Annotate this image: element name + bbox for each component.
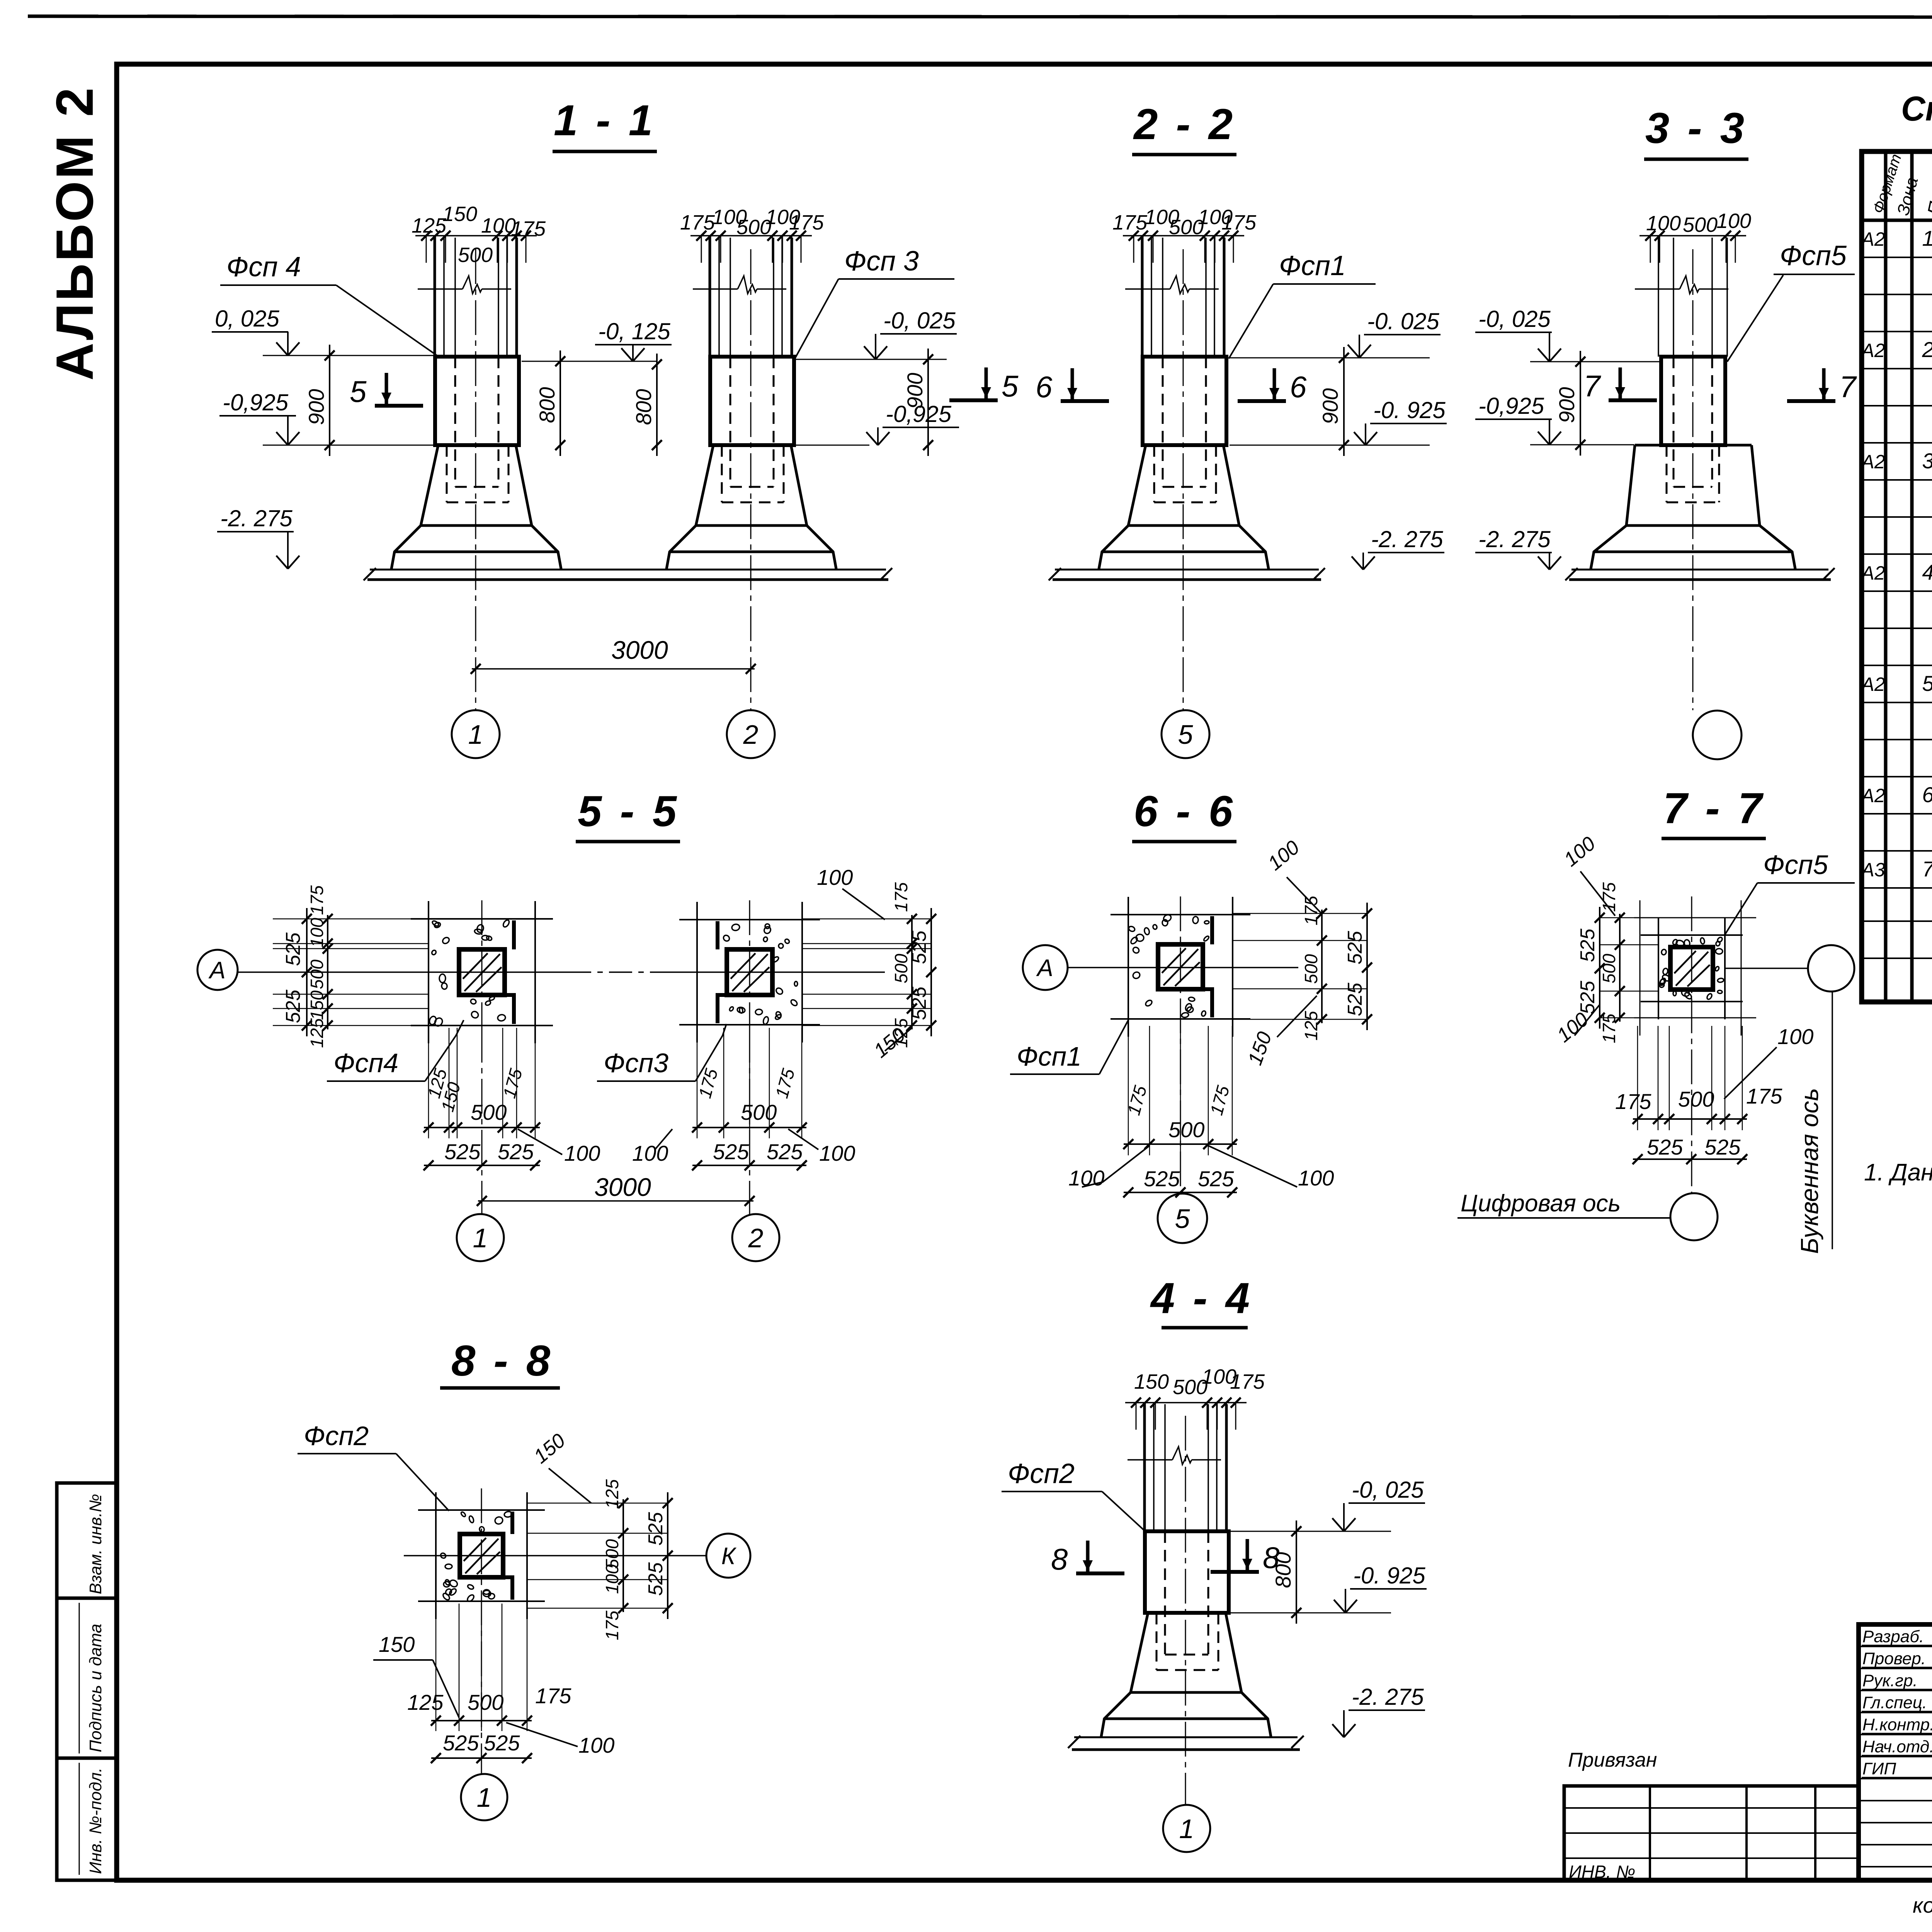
svg-text:150: 150 — [1134, 1370, 1169, 1393]
tapered pier — [435, 444, 519, 447]
svg-text:А2: А2 — [1860, 785, 1885, 806]
pedestal axis line — [750, 249, 752, 710]
column break mark — [418, 288, 463, 290]
letter axis circle К (8-8) — [706, 1534, 750, 1578]
extension square (7-7) — [1634, 917, 1756, 918]
svg-text:-2. 275: -2. 275 — [1352, 1684, 1424, 1710]
svg-text:5: 5 — [1175, 1204, 1190, 1234]
svg-text:500: 500 — [1599, 954, 1619, 983]
svg-text:525: 525 — [1577, 928, 1599, 962]
svg-text:4: 4 — [1922, 560, 1932, 584]
column shaft lines — [1143, 1404, 1146, 1531]
plan outer square — [1111, 914, 1250, 915]
column shaft lines — [1658, 238, 1659, 357]
svg-text:АЛЬБОМ 2: АЛЬБОМ 2 — [45, 86, 104, 381]
svg-text:900: 900 — [304, 389, 328, 425]
svg-text:Инв. №-подл.: Инв. №-подл. — [86, 1768, 105, 1874]
svg-text:1: 1 — [473, 1223, 488, 1253]
svg-text:525: 525 — [645, 1512, 667, 1546]
svg-text:125: 125 — [1301, 1011, 1321, 1041]
column break mark — [1125, 288, 1170, 290]
svg-text:100: 100 — [1298, 1166, 1334, 1190]
spec table frame — [1862, 151, 1932, 1002]
svg-text:ГИП: ГИП — [1862, 1759, 1896, 1778]
vertical dim 900 (3-3) — [1580, 351, 1581, 456]
svg-text:Фсп2: Фсп2 — [304, 1421, 369, 1451]
svg-text:-2. 275: -2. 275 — [1371, 526, 1443, 552]
pedestal axis line — [1183, 249, 1184, 710]
svg-text:Подпись и дата: Подпись и дата — [86, 1624, 105, 1752]
svg-text:2: 2 — [748, 1223, 764, 1253]
svg-text:7: 7 — [1839, 370, 1857, 404]
plan column with hatch — [1158, 944, 1203, 989]
ground line — [1055, 569, 1319, 571]
svg-text:0, 025: 0, 025 — [215, 306, 279, 332]
svg-text:500: 500 — [307, 959, 327, 989]
svg-text:А2: А2 — [1860, 340, 1885, 361]
axis circle 1 (8-8) — [461, 1774, 507, 1820]
svg-text:-0,925: -0,925 — [886, 401, 952, 427]
svg-text:800: 800 — [631, 389, 656, 425]
left dim chains (7-7) — [1599, 907, 1600, 1029]
left dim chains (5-5 square 1) — [306, 908, 308, 1036]
right dim chains (8-8) — [622, 1499, 624, 1612]
axis line to letter circle К (8-8) — [404, 1555, 706, 1556]
column shaft lines — [1141, 238, 1144, 357]
base slab — [421, 524, 532, 527]
vertical axis line (8-8) — [481, 1488, 482, 1774]
svg-text:100: 100 — [307, 918, 327, 947]
svg-text:175: 175 — [1746, 1084, 1782, 1108]
svg-text:5: 5 — [1922, 671, 1932, 696]
svg-text:Цифровая ось: Цифровая ось — [1461, 1190, 1621, 1217]
svg-text:175: 175 — [891, 882, 911, 912]
top dimension string — [415, 235, 537, 236]
svg-text:900: 900 — [1318, 388, 1342, 424]
svg-text:3000: 3000 — [594, 1173, 651, 1201]
svg-text:1: 1 — [1179, 1814, 1194, 1844]
axis circle (section 3-3) — [1693, 711, 1742, 759]
svg-text:500: 500 — [1678, 1087, 1714, 1111]
svg-text:Фсп1: Фсп1 — [1017, 1041, 1082, 1071]
pedestal axis line — [1185, 1416, 1186, 1805]
plan column with hatch — [1670, 947, 1713, 990]
svg-text:Фсп 3: Фсп 3 — [844, 246, 919, 277]
left margin box Подпись и дата — [57, 1598, 116, 1758]
column break mark — [1128, 1459, 1172, 1461]
collar inner dashed column — [454, 357, 456, 487]
svg-text:175: 175 — [307, 885, 327, 915]
svg-text:525: 525 — [484, 1731, 520, 1755]
svg-text:А2: А2 — [1860, 228, 1885, 250]
top dimension string — [1123, 235, 1244, 236]
plan column with hatch — [460, 1534, 503, 1577]
number axis circle (7-7) — [1670, 1193, 1718, 1240]
svg-text:175: 175 — [1615, 1089, 1651, 1114]
collar inner dashed column — [730, 357, 731, 487]
svg-text:6: 6 — [1290, 370, 1307, 404]
svg-text:1. Данный чертеж читать совме: 1. Данный чертеж читать совместно с лист… — [1864, 1159, 1932, 1186]
plan collar band with dots — [716, 921, 719, 949]
svg-text:Фсп5: Фсп5 — [1780, 240, 1847, 271]
axis line to letter circle (7-7) — [1725, 968, 1808, 969]
svg-text:-2. 275: -2. 275 — [1478, 526, 1551, 552]
axis circle 1 (section 1-1) — [452, 710, 500, 758]
svg-text:525: 525 — [443, 1731, 479, 1755]
column break mark — [693, 288, 738, 290]
axis circle 1 (5-5) — [457, 1214, 504, 1261]
plan collar band with dots — [1661, 949, 1667, 955]
svg-text:7 - 7: 7 - 7 — [1663, 784, 1765, 832]
svg-text:525: 525 — [1647, 1135, 1683, 1159]
svg-text:А3: А3 — [1860, 859, 1885, 881]
title block signature rows — [1859, 1646, 1932, 1647]
axis circle 5 (6-6) — [1158, 1194, 1207, 1243]
svg-text:525: 525 — [444, 1139, 481, 1164]
svg-text:500: 500 — [1683, 213, 1718, 236]
base slab — [1128, 524, 1239, 527]
plan outer square — [411, 918, 553, 920]
svg-text:Рук.гр.: Рук.гр. — [1862, 1671, 1918, 1690]
svg-text:500: 500 — [741, 1100, 777, 1124]
tapered pier — [710, 444, 794, 447]
svg-text:7: 7 — [1922, 857, 1932, 881]
bottom dim chains (7-7) — [1637, 1026, 1638, 1130]
vertical dim 900 right of axis2 — [927, 349, 929, 456]
pedestal axis line — [475, 249, 476, 710]
svg-text:125: 125 — [602, 1479, 622, 1509]
svg-text:525: 525 — [908, 986, 930, 1020]
svg-text:Разраб.: Разраб. — [1862, 1627, 1924, 1646]
svg-text:150: 150 — [442, 202, 477, 226]
svg-text:Нач.отд.: Нач.отд. — [1862, 1737, 1932, 1756]
vertical dim 900 (2-2) — [1343, 347, 1345, 456]
vertical axis line (6-6) — [1180, 896, 1181, 1194]
svg-text:175: 175 — [1112, 211, 1148, 234]
vertical axis lines (5-5) — [481, 900, 483, 1028]
axis circle 2 (5-5) — [732, 1214, 779, 1261]
svg-text:900: 900 — [1554, 387, 1579, 423]
axis line A (6-6) — [1068, 967, 1298, 968]
svg-text:175: 175 — [602, 1611, 622, 1640]
svg-text:100: 100 — [578, 1733, 614, 1757]
svg-text:8 - 8: 8 - 8 — [451, 1337, 553, 1385]
axis circle 1 (section 4-4) — [1163, 1805, 1210, 1852]
svg-text:А2: А2 — [1860, 451, 1885, 473]
svg-text:Фсп5: Фсп5 — [1763, 850, 1828, 880]
svg-text:1: 1 — [1922, 226, 1932, 250]
svg-text:-0, 125: -0, 125 — [598, 318, 670, 344]
svg-text:ИНВ. №: ИНВ. № — [1569, 1862, 1635, 1882]
svg-text:100: 100 — [602, 1564, 622, 1594]
svg-text:Фсп4: Фсп4 — [333, 1048, 398, 1078]
plan outer square — [679, 919, 820, 920]
plan collar band with dots — [512, 920, 516, 949]
vertical dim 800 left of axis2 — [656, 354, 658, 456]
svg-text:125: 125 — [412, 214, 447, 237]
svg-text:525: 525 — [1344, 982, 1366, 1016]
top dimension string — [690, 235, 812, 236]
vertical dim 800 right of axis1 — [560, 350, 561, 456]
svg-text:Гл.спец.: Гл.спец. — [1862, 1693, 1927, 1712]
axis line A (5-5) — [237, 971, 568, 973]
svg-text:К: К — [721, 1543, 737, 1570]
svg-text:1: 1 — [477, 1782, 492, 1813]
svg-text:-0, 025: -0, 025 — [1478, 306, 1551, 332]
svg-text:175: 175 — [535, 1684, 571, 1708]
svg-text:500: 500 — [468, 1690, 503, 1714]
svg-text:525: 525 — [908, 930, 930, 964]
svg-text:4 - 4: 4 - 4 — [1150, 1274, 1253, 1322]
svg-text:525: 525 — [1344, 930, 1366, 964]
dimension 3000 between axes 1 and 2 — [472, 668, 755, 670]
svg-text:500: 500 — [1301, 954, 1321, 984]
svg-text:525: 525 — [498, 1139, 534, 1164]
svg-text:А: А — [208, 957, 225, 984]
ground line — [1074, 1736, 1298, 1738]
svg-text:6: 6 — [1922, 782, 1932, 807]
svg-text:6 - 6: 6 - 6 — [1134, 787, 1236, 835]
svg-text:100: 100 — [817, 865, 853, 889]
svg-text:А2: А2 — [1860, 562, 1885, 584]
pedestal collar block — [1145, 1531, 1229, 1613]
svg-text:500: 500 — [458, 243, 493, 267]
plan collar band with dots — [510, 1512, 514, 1534]
plan outer square — [1641, 934, 1743, 936]
collar inner dashed column — [1673, 357, 1675, 487]
left margin box Инв. № подл. — [57, 1758, 116, 1880]
axis circle А (6-6) — [1023, 945, 1068, 990]
tapered pier — [1145, 1612, 1229, 1614]
collar inner dashed column — [1164, 1531, 1166, 1655]
bottom dim chains (8-8) — [435, 1604, 437, 1731]
svg-text:5 - 5: 5 - 5 — [578, 787, 680, 835]
svg-text:2 - 2: 2 - 2 — [1133, 100, 1236, 148]
svg-text:7: 7 — [1583, 369, 1601, 403]
pedestal collar block — [435, 357, 519, 445]
svg-text:-0, 025: -0, 025 — [1352, 1477, 1424, 1503]
pedestal axis line — [1692, 249, 1694, 710]
svg-text:525: 525 — [713, 1139, 749, 1164]
svg-text:525: 525 — [1144, 1167, 1180, 1191]
svg-text:525: 525 — [1704, 1135, 1741, 1159]
axis circle А (5-5) — [197, 950, 238, 990]
svg-text:175: 175 — [680, 211, 715, 234]
svg-text:Провер.: Провер. — [1862, 1649, 1926, 1668]
svg-text:Спецификация набетонок: Спецификация набетонок — [1901, 90, 1932, 128]
pedestal collar block — [1143, 357, 1226, 445]
svg-text:175: 175 — [789, 211, 824, 234]
binding table left of title block — [1564, 1786, 1859, 1880]
svg-text:500: 500 — [1168, 1117, 1204, 1142]
svg-text:175: 175 — [1230, 1370, 1265, 1393]
base slab — [1626, 524, 1760, 527]
svg-text:-0,925: -0,925 — [223, 389, 289, 415]
svg-text:3000: 3000 — [611, 636, 668, 664]
vertical line below letter circle (7-7) — [1832, 992, 1833, 1249]
svg-text:125: 125 — [307, 1018, 327, 1048]
right dim chains (5-5 square 2) — [911, 915, 913, 1029]
tapered pier — [1143, 444, 1226, 447]
spec table row lines — [1862, 257, 1932, 258]
top dimension string — [1125, 1402, 1247, 1403]
svg-text:125: 125 — [407, 1690, 444, 1714]
svg-text:Н.контр.: Н.контр. — [1862, 1715, 1932, 1734]
svg-text:2: 2 — [743, 719, 759, 750]
svg-text:5: 5 — [1002, 369, 1019, 403]
svg-text:А: А — [1036, 955, 1053, 981]
svg-text:100: 100 — [1646, 212, 1681, 235]
svg-text:-0, 025: -0, 025 — [883, 308, 956, 333]
svg-text:3: 3 — [1922, 449, 1932, 473]
svg-text:100: 100 — [1777, 1024, 1813, 1049]
svg-text:525: 525 — [645, 1562, 667, 1596]
letter axis circle (7-7) — [1808, 945, 1854, 992]
top dimension string — [1639, 235, 1746, 236]
svg-text:Фсп3: Фсп3 — [604, 1048, 668, 1078]
svg-text:Буквенная ось: Буквенная ось — [1796, 1088, 1823, 1254]
svg-text:Фсп 4: Фсп 4 — [226, 252, 301, 282]
svg-text:175: 175 — [1221, 211, 1257, 234]
vertical axis line (7-7) — [1691, 896, 1692, 1193]
spec table column lines — [1884, 151, 1888, 1002]
svg-text:8: 8 — [1051, 1542, 1068, 1576]
svg-text:А2: А2 — [1860, 673, 1885, 695]
svg-text:6: 6 — [1036, 370, 1053, 404]
svg-text:100: 100 — [632, 1141, 668, 1165]
plan column with hatch — [459, 949, 505, 995]
svg-text:-0,925: -0,925 — [1478, 393, 1544, 419]
svg-text:500: 500 — [471, 1100, 507, 1124]
svg-text:1 - 1: 1 - 1 — [554, 96, 656, 145]
svg-text:5: 5 — [1178, 719, 1194, 750]
axis circle 5 (section 2-2) — [1162, 710, 1209, 758]
ground line — [370, 569, 886, 571]
dimension 3000 (5-5) — [478, 1200, 753, 1202]
column break mark — [1635, 288, 1680, 290]
ground line — [1571, 569, 1828, 571]
spec table header row — [1862, 219, 1932, 222]
bottom dim chains (5-5 square 2) — [697, 1028, 698, 1138]
axis circle 2 (section 1-1) — [727, 710, 775, 758]
svg-text:525: 525 — [767, 1139, 803, 1164]
left margin box Взам. инв. № — [57, 1483, 116, 1598]
svg-text:150: 150 — [379, 1632, 415, 1656]
base slab — [696, 524, 807, 527]
svg-text:3 - 3: 3 - 3 — [1645, 104, 1747, 152]
column shaft lines — [434, 238, 436, 357]
svg-text:-0. 925: -0. 925 — [1373, 397, 1446, 423]
plan column with hatch — [727, 949, 772, 995]
pedestal collar block — [1661, 357, 1725, 445]
svg-text:2: 2 — [1922, 337, 1932, 362]
svg-text:800: 800 — [1271, 1552, 1295, 1588]
svg-text:Фсп1: Фсп1 — [1279, 250, 1346, 281]
svg-text:5: 5 — [350, 374, 367, 408]
svg-text:Фсп2: Фсп2 — [1008, 1458, 1075, 1489]
vertical dim 800 (4-4) — [1296, 1520, 1297, 1624]
tapered pier — [1635, 444, 1752, 447]
bottom dim chains (5-5 square 1) — [428, 1028, 429, 1138]
collar inner dashed column — [1162, 357, 1164, 487]
right dim chains (6-6) — [1321, 910, 1323, 1023]
svg-text:-2. 275: -2. 275 — [220, 505, 293, 531]
svg-text:100: 100 — [819, 1141, 855, 1165]
svg-text:-0. 925: -0. 925 — [1353, 1563, 1425, 1588]
svg-text:Взам. инв.№: Взам. инв.№ — [86, 1494, 105, 1594]
svg-text:800: 800 — [535, 387, 559, 423]
svg-text:-0. 025: -0. 025 — [1367, 308, 1439, 334]
svg-text:коп.: коп. — [1913, 1893, 1932, 1917]
column shaft lines — [709, 238, 711, 357]
plan collar band with dots — [1210, 916, 1214, 944]
plan outer square — [418, 1509, 545, 1511]
base slab — [1131, 1691, 1242, 1694]
vertical dim 900 (axis1 left) — [329, 345, 330, 456]
title block outer frame — [1859, 1624, 1932, 1880]
pedestal collar block — [710, 357, 794, 445]
svg-text:100: 100 — [1716, 209, 1751, 233]
sheet top edge line — [28, 16, 1932, 17]
svg-text:525: 525 — [1198, 1167, 1234, 1191]
svg-text:Привязан: Привязан — [1568, 1749, 1657, 1771]
svg-text:100: 100 — [564, 1141, 600, 1165]
bottom dim chains (6-6) — [1128, 1026, 1129, 1155]
svg-text:150: 150 — [307, 990, 327, 1020]
svg-text:1: 1 — [468, 719, 483, 750]
